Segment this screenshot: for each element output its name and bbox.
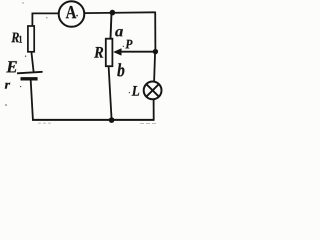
scan speck near R1 box bottom [25, 56, 26, 57]
wire rheostat bottom (box to bottom junction) [109, 66, 112, 120]
battery short thick plate [21, 77, 38, 80]
scan smudge below bottom rail right [140, 122, 157, 124]
rheostat R box [106, 39, 113, 66]
speck after A [76, 15, 78, 17]
scan speck left margin [5, 104, 7, 106]
wiper label P [125, 40, 132, 49]
lamp L circle [144, 82, 162, 100]
wire battery bottom plate to bottom-left corner [31, 80, 33, 119]
wire R1 bottom to battery top plate [31, 52, 33, 72]
ammeter U1 circle [59, 1, 85, 27]
resistor R1 label subscript 1 [19, 36, 22, 43]
scan speck top-left [22, 2, 23, 3]
ammeter label A [66, 6, 77, 18]
scan speck near L [129, 92, 130, 93]
scan speck near r [20, 86, 21, 87]
battery long thin plate [17, 72, 43, 74]
wire right vertical (wiper junction down to lamp) [154, 52, 155, 82]
wire lamp bottom to bottom-right corner [153, 99, 155, 120]
wiper arrow shaft [121, 51, 156, 53]
resistor R1 box [28, 26, 34, 52]
wire top-right (ammeter to top-right corner) [85, 11, 155, 14]
rheostat label R [94, 47, 103, 58]
lamp label L [132, 86, 140, 96]
wiper arrow P head [113, 48, 121, 55]
wire bottom rail [32, 119, 155, 121]
wire right vertical (top corner down to wiper junction) [154, 12, 156, 52]
lamp X diagonal 1 [146, 84, 158, 96]
resistor R1 label R [11, 33, 19, 43]
scan smudge below bottom rail left [38, 122, 52, 124]
wire rheostat top (junction down to rheostat box) [111, 13, 112, 39]
lamp X diagonal 2 [146, 84, 158, 96]
battery label r [5, 83, 10, 89]
node junction dot top of rheostat branch [110, 10, 116, 16]
node label a [115, 29, 123, 36]
wire top-left (corner above R1 to ammeter) [32, 12, 58, 14]
node label b [117, 63, 124, 76]
scan speck top area [46, 17, 47, 18]
battery label E [6, 61, 17, 72]
scan speck left of P [123, 46, 124, 47]
wire left vertical (top corner down to R1 top) [31, 13, 33, 27]
node junction dot bottom [109, 117, 115, 123]
node junction dot right (wiper joins right branch) [153, 49, 158, 54]
